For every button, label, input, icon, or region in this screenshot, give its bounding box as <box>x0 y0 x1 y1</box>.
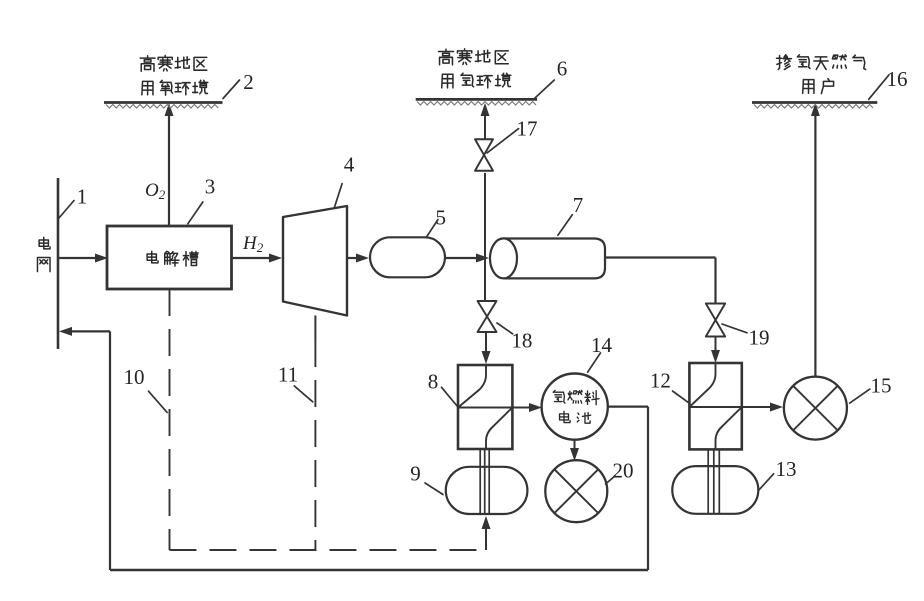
device 20 (circle-X) <box>545 460 607 522</box>
electrolyzer box 3 <box>107 226 232 289</box>
dashed heat header <box>170 549 487 551</box>
pipe bundle bed 12 to tank 13 <box>707 449 709 513</box>
label 13 leader <box>758 474 773 491</box>
oxygen environment text 用氧环境 <box>142 81 153 94</box>
valve 19 <box>706 304 725 321</box>
natural gas user interface line 16 <box>752 101 877 104</box>
label 7 leader <box>558 215 572 236</box>
svg-text:9: 9 <box>410 462 421 486</box>
wire: bus to electrolyzer <box>58 257 96 259</box>
dashed heat line 10 <box>169 289 171 550</box>
valve 18 <box>478 301 497 317</box>
hydrogen environment text 用氢环境 <box>442 74 453 88</box>
wire: electrolyzer to compressor <box>232 257 271 259</box>
electrolyzer label 电解槽 <box>147 251 158 263</box>
wire: fuel cell electric return to grid <box>608 406 648 408</box>
fuel cell 14 <box>542 374 608 440</box>
compressor 4 <box>283 206 347 316</box>
label 11 leader <box>294 386 313 402</box>
svg-text:13: 13 <box>776 457 797 481</box>
label 2 leader <box>223 80 240 99</box>
svg-text:12: 12 <box>650 369 671 393</box>
label 17 leader <box>487 129 519 153</box>
svg-text:2: 2 <box>243 70 254 94</box>
svg-text:10: 10 <box>124 365 145 389</box>
svg-text:18: 18 <box>511 329 532 353</box>
label 6 leader <box>534 80 554 99</box>
label 8 leader <box>442 387 458 406</box>
label 10 leader <box>149 391 168 412</box>
oxygen environment text 高寒地区 <box>140 56 155 71</box>
wire: bed 8 to fuel cell <box>512 407 530 409</box>
svg-text:6: 6 <box>557 57 568 81</box>
label 15 leader <box>850 389 870 403</box>
oxygen environment interface line 2 <box>104 101 223 104</box>
wire: hydrogen column (valve 17 to valve 18) <box>484 112 486 139</box>
metal-hydride bed 12 <box>689 363 741 449</box>
svg-text:3: 3 <box>205 175 216 199</box>
device 15 (circle-X) <box>784 377 847 440</box>
svg-text:8: 8 <box>428 370 439 394</box>
hydrogen environment text 高寒地区 <box>439 49 454 65</box>
label 4 leader <box>335 184 343 208</box>
grid bus bar 1 <box>57 178 60 349</box>
metal-hydride bed 8 <box>458 365 512 449</box>
hydrogen environment interface line 6 <box>416 98 537 101</box>
svg-text:19: 19 <box>749 325 770 349</box>
svg-text:14: 14 <box>591 333 613 357</box>
svg-text:7: 7 <box>573 193 584 217</box>
label 1 leader <box>59 201 75 219</box>
svg-text:17: 17 <box>517 117 538 141</box>
fuel cell text 电池 <box>560 411 571 422</box>
wire: separator 7 to valve 19 <box>605 256 716 258</box>
label 5 leader <box>426 220 438 238</box>
label 18 leader <box>497 323 513 334</box>
wire: valve 18 to bed 8 <box>485 332 487 353</box>
wire: compressor to tank 5 <box>347 257 357 259</box>
label 12 leader <box>673 391 689 403</box>
label 16 leader <box>869 75 889 99</box>
fuel cell text 氢燃料 <box>553 390 565 403</box>
svg-text:4: 4 <box>344 153 355 177</box>
wire: fuel cell to device 20 <box>574 440 576 452</box>
label 19 leader <box>722 324 747 333</box>
gas user text 掺氢天然气 <box>777 55 792 70</box>
wire: device 15 to gas users <box>814 112 816 377</box>
separator cylinder 7 <box>504 239 606 279</box>
dashed heat line 11 <box>314 340 316 550</box>
svg-text:15: 15 <box>871 374 892 398</box>
gas user text 用户 <box>803 80 814 94</box>
label 14 leader <box>588 353 601 372</box>
compressor bottom stub <box>314 316 316 341</box>
svg-text:20: 20 <box>613 459 634 483</box>
valve 17 <box>475 139 493 155</box>
wire: valve 19 to bed 12 <box>715 337 717 352</box>
svg-text:11: 11 <box>278 363 298 387</box>
grid label 电网 <box>39 237 50 249</box>
wire: heat supply arrow into tank 9 <box>485 527 487 550</box>
tank 13 <box>672 466 758 514</box>
pipe bundle bed 8 to tank 9 <box>479 449 481 514</box>
wire: tank 5 to separator 7 <box>445 257 477 259</box>
tank 9 <box>446 467 528 514</box>
label 9 leader <box>425 483 443 495</box>
svg-text:16: 16 <box>887 67 908 91</box>
tank 5 <box>370 237 445 277</box>
label 3 leader <box>188 202 203 224</box>
wire: bed 12 to device 15 <box>742 406 771 408</box>
svg-text:1: 1 <box>77 185 88 209</box>
label 20 leader <box>606 476 616 484</box>
svg-text:5: 5 <box>435 205 446 229</box>
wire: O2 to oxygen environment <box>168 112 170 226</box>
